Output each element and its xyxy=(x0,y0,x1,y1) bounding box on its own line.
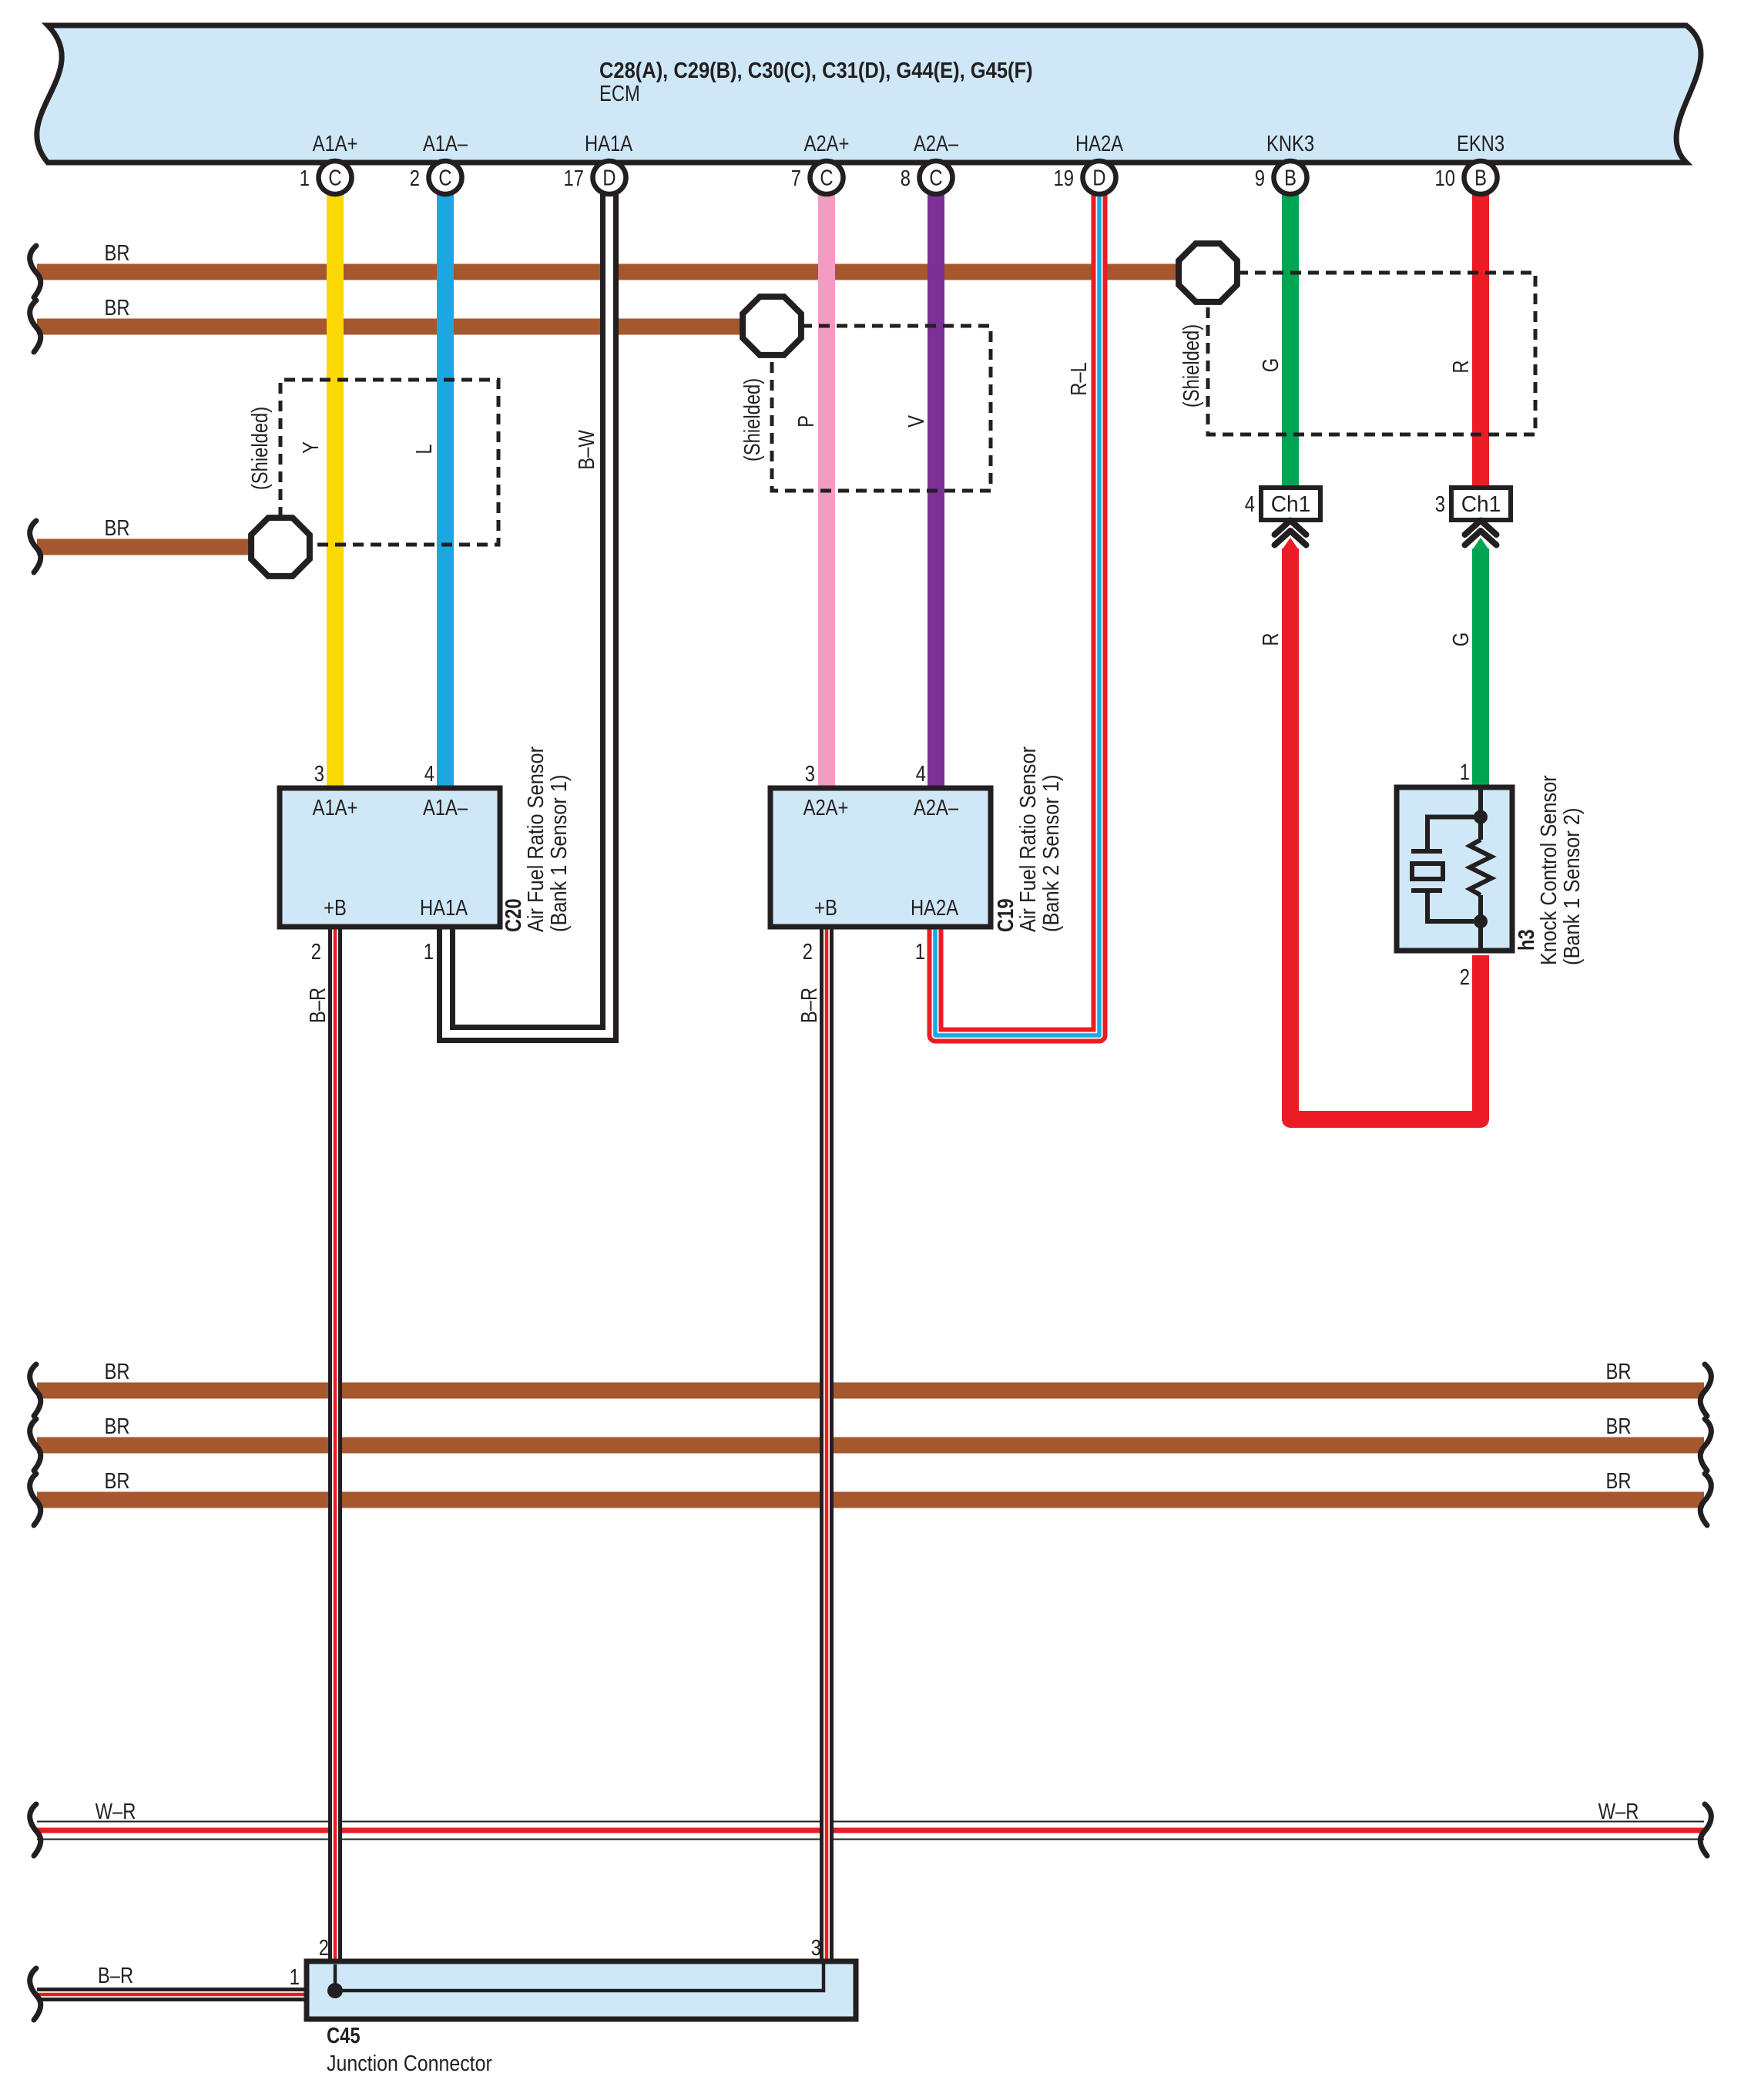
svg-text:C45: C45 xyxy=(327,2023,361,2048)
svg-text:(Shielded): (Shielded) xyxy=(1179,324,1204,408)
svg-text:D: D xyxy=(602,165,616,190)
svg-text:BR: BR xyxy=(104,1468,129,1494)
BR labels top xyxy=(104,240,129,541)
svg-text:BR: BR xyxy=(104,295,129,320)
shield dashed box 2 (C19 sensor wires) xyxy=(772,326,991,491)
BR labels lower left xyxy=(104,1359,129,1494)
wire BR ground bus (lower 1) xyxy=(37,1383,1704,1399)
svg-text:2: 2 xyxy=(803,939,813,964)
ECM pin 2 (C) xyxy=(410,161,462,194)
svg-text:HA1A: HA1A xyxy=(420,895,468,921)
ECM pin 9 (B) xyxy=(1255,161,1307,194)
shield ground octagon 1 xyxy=(251,518,310,576)
shield dashed box 3 (knock sensor wires) xyxy=(1208,273,1535,434)
connector Ch1 pin 4 xyxy=(1261,488,1320,520)
svg-text:Air Fuel Ratio Sensor: Air Fuel Ratio Sensor xyxy=(522,746,548,932)
svg-text:C: C xyxy=(820,165,833,190)
svg-text:ECM: ECM xyxy=(599,81,640,106)
svg-text:B: B xyxy=(1474,165,1487,190)
wire B-W HA1A xyxy=(446,181,609,1034)
svg-text:A2A+: A2A+ xyxy=(804,131,850,156)
B-R vertical labels xyxy=(305,988,822,1023)
wire BR ground bus (lower 2) xyxy=(37,1437,1704,1454)
connector C19 Air Fuel Ratio Sensor (Bank 2 Sensor 1) xyxy=(770,788,991,927)
wire B-R from C20 +B to C45 pin 2 xyxy=(328,929,342,1969)
svg-text:B–R: B–R xyxy=(797,988,822,1023)
svg-text:BR: BR xyxy=(1605,1414,1631,1439)
svg-text:4: 4 xyxy=(916,761,926,787)
(Shielded) labels xyxy=(247,324,1204,490)
svg-text:A2A–: A2A– xyxy=(914,131,958,156)
svg-text:2: 2 xyxy=(1460,964,1470,990)
svg-text:BR: BR xyxy=(1605,1468,1631,1494)
C20 pin numbers xyxy=(311,761,434,964)
C19 side labels xyxy=(993,746,1064,932)
svg-text:3: 3 xyxy=(805,761,815,787)
svg-text:G: G xyxy=(1448,632,1474,646)
shield dashed box 1 (C20 sensor wires) xyxy=(280,380,498,545)
svg-text:W–R: W–R xyxy=(96,1799,136,1824)
svg-text:9: 9 xyxy=(1255,166,1265,191)
svg-text:1: 1 xyxy=(915,939,925,964)
svg-text:R–L: R–L xyxy=(1066,362,1092,396)
knock sensor pin numbers xyxy=(1460,760,1470,990)
svg-text:B–R: B–R xyxy=(305,988,330,1023)
svg-text:A2A+: A2A+ xyxy=(803,795,849,820)
ECM pin 10 (B) xyxy=(1435,161,1498,194)
sensor h3 Knock Control Sensor (Bank 1 Sensor 2) xyxy=(1397,787,1512,951)
wire G from Ch1 pin3 to knock sensor pin 1 xyxy=(1472,548,1489,790)
svg-text:HA2A: HA2A xyxy=(911,895,958,921)
wire G KNK3 xyxy=(1282,181,1299,490)
svg-text:C: C xyxy=(328,165,341,190)
wire L A1A- xyxy=(437,181,454,790)
svg-text:1: 1 xyxy=(424,939,434,964)
BR labels lower right xyxy=(1605,1359,1631,1494)
C45 pin numbers xyxy=(290,1935,821,1990)
R / G labels below Ch1 xyxy=(1258,632,1474,646)
svg-text:10: 10 xyxy=(1435,166,1455,191)
svg-text:Ch1: Ch1 xyxy=(1461,492,1501,517)
wire R-L HA2A xyxy=(935,181,1099,1035)
svg-text:2: 2 xyxy=(311,939,321,964)
svg-text:3: 3 xyxy=(1435,491,1445,517)
svg-text:Ch1: Ch1 xyxy=(1271,492,1311,517)
ECM pin 7 (C) xyxy=(791,161,844,194)
ECM pin 17 (D) xyxy=(564,161,626,194)
svg-text:BR: BR xyxy=(104,240,129,266)
svg-text:A1A–: A1A– xyxy=(423,131,468,156)
svg-text:G: G xyxy=(1258,358,1283,372)
svg-text:C: C xyxy=(929,165,942,190)
wire B-R from C19 +B to C45 pin 3 xyxy=(820,929,834,1969)
svg-text:1: 1 xyxy=(1460,760,1470,785)
W-R labels xyxy=(96,1799,1639,1824)
svg-text:EKN3: EKN3 xyxy=(1457,131,1505,156)
ECM pin 1 (C) xyxy=(300,161,352,194)
svg-text:Y: Y xyxy=(298,441,324,454)
svg-text:4: 4 xyxy=(1245,491,1255,517)
svg-text:A1A–: A1A– xyxy=(423,795,468,820)
svg-text:R: R xyxy=(1258,632,1283,646)
C45 labels xyxy=(327,2023,492,2076)
twisted pair chevrons under Ch1 pin3 xyxy=(1465,521,1497,545)
C19 pin numbers xyxy=(803,761,926,964)
svg-text:A2A–: A2A– xyxy=(914,795,958,820)
svg-text:1: 1 xyxy=(300,166,310,191)
wire BR shield drain (top 2) xyxy=(37,319,745,335)
svg-text:3: 3 xyxy=(314,761,324,787)
svg-text:P: P xyxy=(793,415,819,428)
svg-text:(Bank 1 Sensor 1): (Bank 1 Sensor 1) xyxy=(545,775,571,932)
svg-text:19: 19 xyxy=(1054,166,1074,191)
connector C45 Junction Connector xyxy=(307,1961,856,2019)
svg-text:B–W: B–W xyxy=(574,430,599,470)
knock sensor side labels xyxy=(1514,775,1585,965)
wire BR shield drain (top 1) xyxy=(37,264,1181,280)
wire R EKN3 xyxy=(1472,181,1489,490)
ECM pin name labels xyxy=(313,131,1505,156)
svg-text:B–R: B–R xyxy=(98,1963,133,1988)
svg-text:Air Fuel Ratio Sensor: Air Fuel Ratio Sensor xyxy=(1015,746,1040,932)
svg-text:A1A+: A1A+ xyxy=(313,131,358,156)
wire W-R xyxy=(37,1821,1704,1840)
svg-text:R: R xyxy=(1448,360,1474,373)
svg-text:B: B xyxy=(1284,165,1297,190)
connector C20 Air Fuel Ratio Sensor (Bank 1 Sensor 1) xyxy=(280,788,500,927)
svg-text:2: 2 xyxy=(410,166,420,191)
svg-text:W–R: W–R xyxy=(1598,1799,1639,1824)
twisted pair chevrons under Ch1 pin4 xyxy=(1275,521,1307,545)
svg-text:Junction Connector: Junction Connector xyxy=(327,2051,492,2075)
svg-text:17: 17 xyxy=(564,166,584,191)
ECM title text xyxy=(599,57,1033,106)
svg-text:1: 1 xyxy=(290,1964,300,1990)
wire BR ground bus (lower 3) xyxy=(37,1492,1704,1508)
C20 side labels xyxy=(501,746,572,932)
svg-text:2: 2 xyxy=(319,1935,329,1961)
ECM pin 8 (C) xyxy=(901,161,953,194)
wire V A2A- xyxy=(928,181,944,790)
svg-text:(Bank 1 Sensor 2): (Bank 1 Sensor 2) xyxy=(1558,808,1584,965)
svg-text:BR: BR xyxy=(104,515,129,541)
ECM connector box C28/C29/C30/C31/G44/G45 xyxy=(37,25,1701,163)
svg-text:+B: +B xyxy=(324,895,347,921)
svg-text:(Bank 2 Sensor 1): (Bank 2 Sensor 1) xyxy=(1038,775,1063,932)
ECM pin 19 (D) xyxy=(1054,161,1116,194)
svg-text:3: 3 xyxy=(811,1935,821,1961)
svg-text:(Shielded): (Shielded) xyxy=(740,378,765,461)
connector Ch1 pin 3 xyxy=(1451,488,1511,520)
svg-text:Knock Control Sensor: Knock Control Sensor xyxy=(1535,775,1561,965)
wire R from Ch1 pin4 to knock sensor pin 2 xyxy=(1290,548,1481,1119)
svg-text:V: V xyxy=(904,415,929,428)
knock sensor internal circuit xyxy=(1411,787,1491,951)
svg-text:4: 4 xyxy=(424,761,434,787)
svg-text:8: 8 xyxy=(901,166,911,191)
svg-text:HA1A: HA1A xyxy=(585,131,632,156)
wire P A2A+ xyxy=(818,181,835,790)
B-R label bottom left xyxy=(98,1963,133,1988)
knock sensor junction dots xyxy=(1474,810,1488,824)
svg-text:BR: BR xyxy=(104,1414,129,1439)
svg-text:C: C xyxy=(438,165,451,190)
svg-text:D: D xyxy=(1092,165,1105,190)
shield ground octagon 3 xyxy=(1179,243,1237,302)
svg-text:7: 7 xyxy=(791,166,801,191)
svg-text:BR: BR xyxy=(104,1359,129,1384)
wire Y A1A+ xyxy=(327,181,344,790)
svg-text:A1A+: A1A+ xyxy=(313,795,358,820)
svg-text:HA2A: HA2A xyxy=(1075,131,1123,156)
svg-text:+B: +B xyxy=(814,895,837,921)
svg-text:L: L xyxy=(411,444,437,454)
svg-text:C28(A), C29(B), C30(C), C31(D): C28(A), C29(B), C30(C), C31(D), G44(E), … xyxy=(599,57,1033,82)
wire letter labels xyxy=(298,358,1474,470)
wire B-R to C45 pin 1 xyxy=(37,1988,308,2001)
svg-text:KNK3: KNK3 xyxy=(1266,131,1314,156)
svg-text:BR: BR xyxy=(1605,1359,1631,1384)
shield ground octagon 2 xyxy=(743,297,801,355)
wire BR shield drain (top 3) xyxy=(37,539,254,555)
C45 internal bus line xyxy=(335,1964,824,1991)
svg-text:(Shielded): (Shielded) xyxy=(247,407,273,490)
C45 junction dot xyxy=(327,1983,343,1998)
